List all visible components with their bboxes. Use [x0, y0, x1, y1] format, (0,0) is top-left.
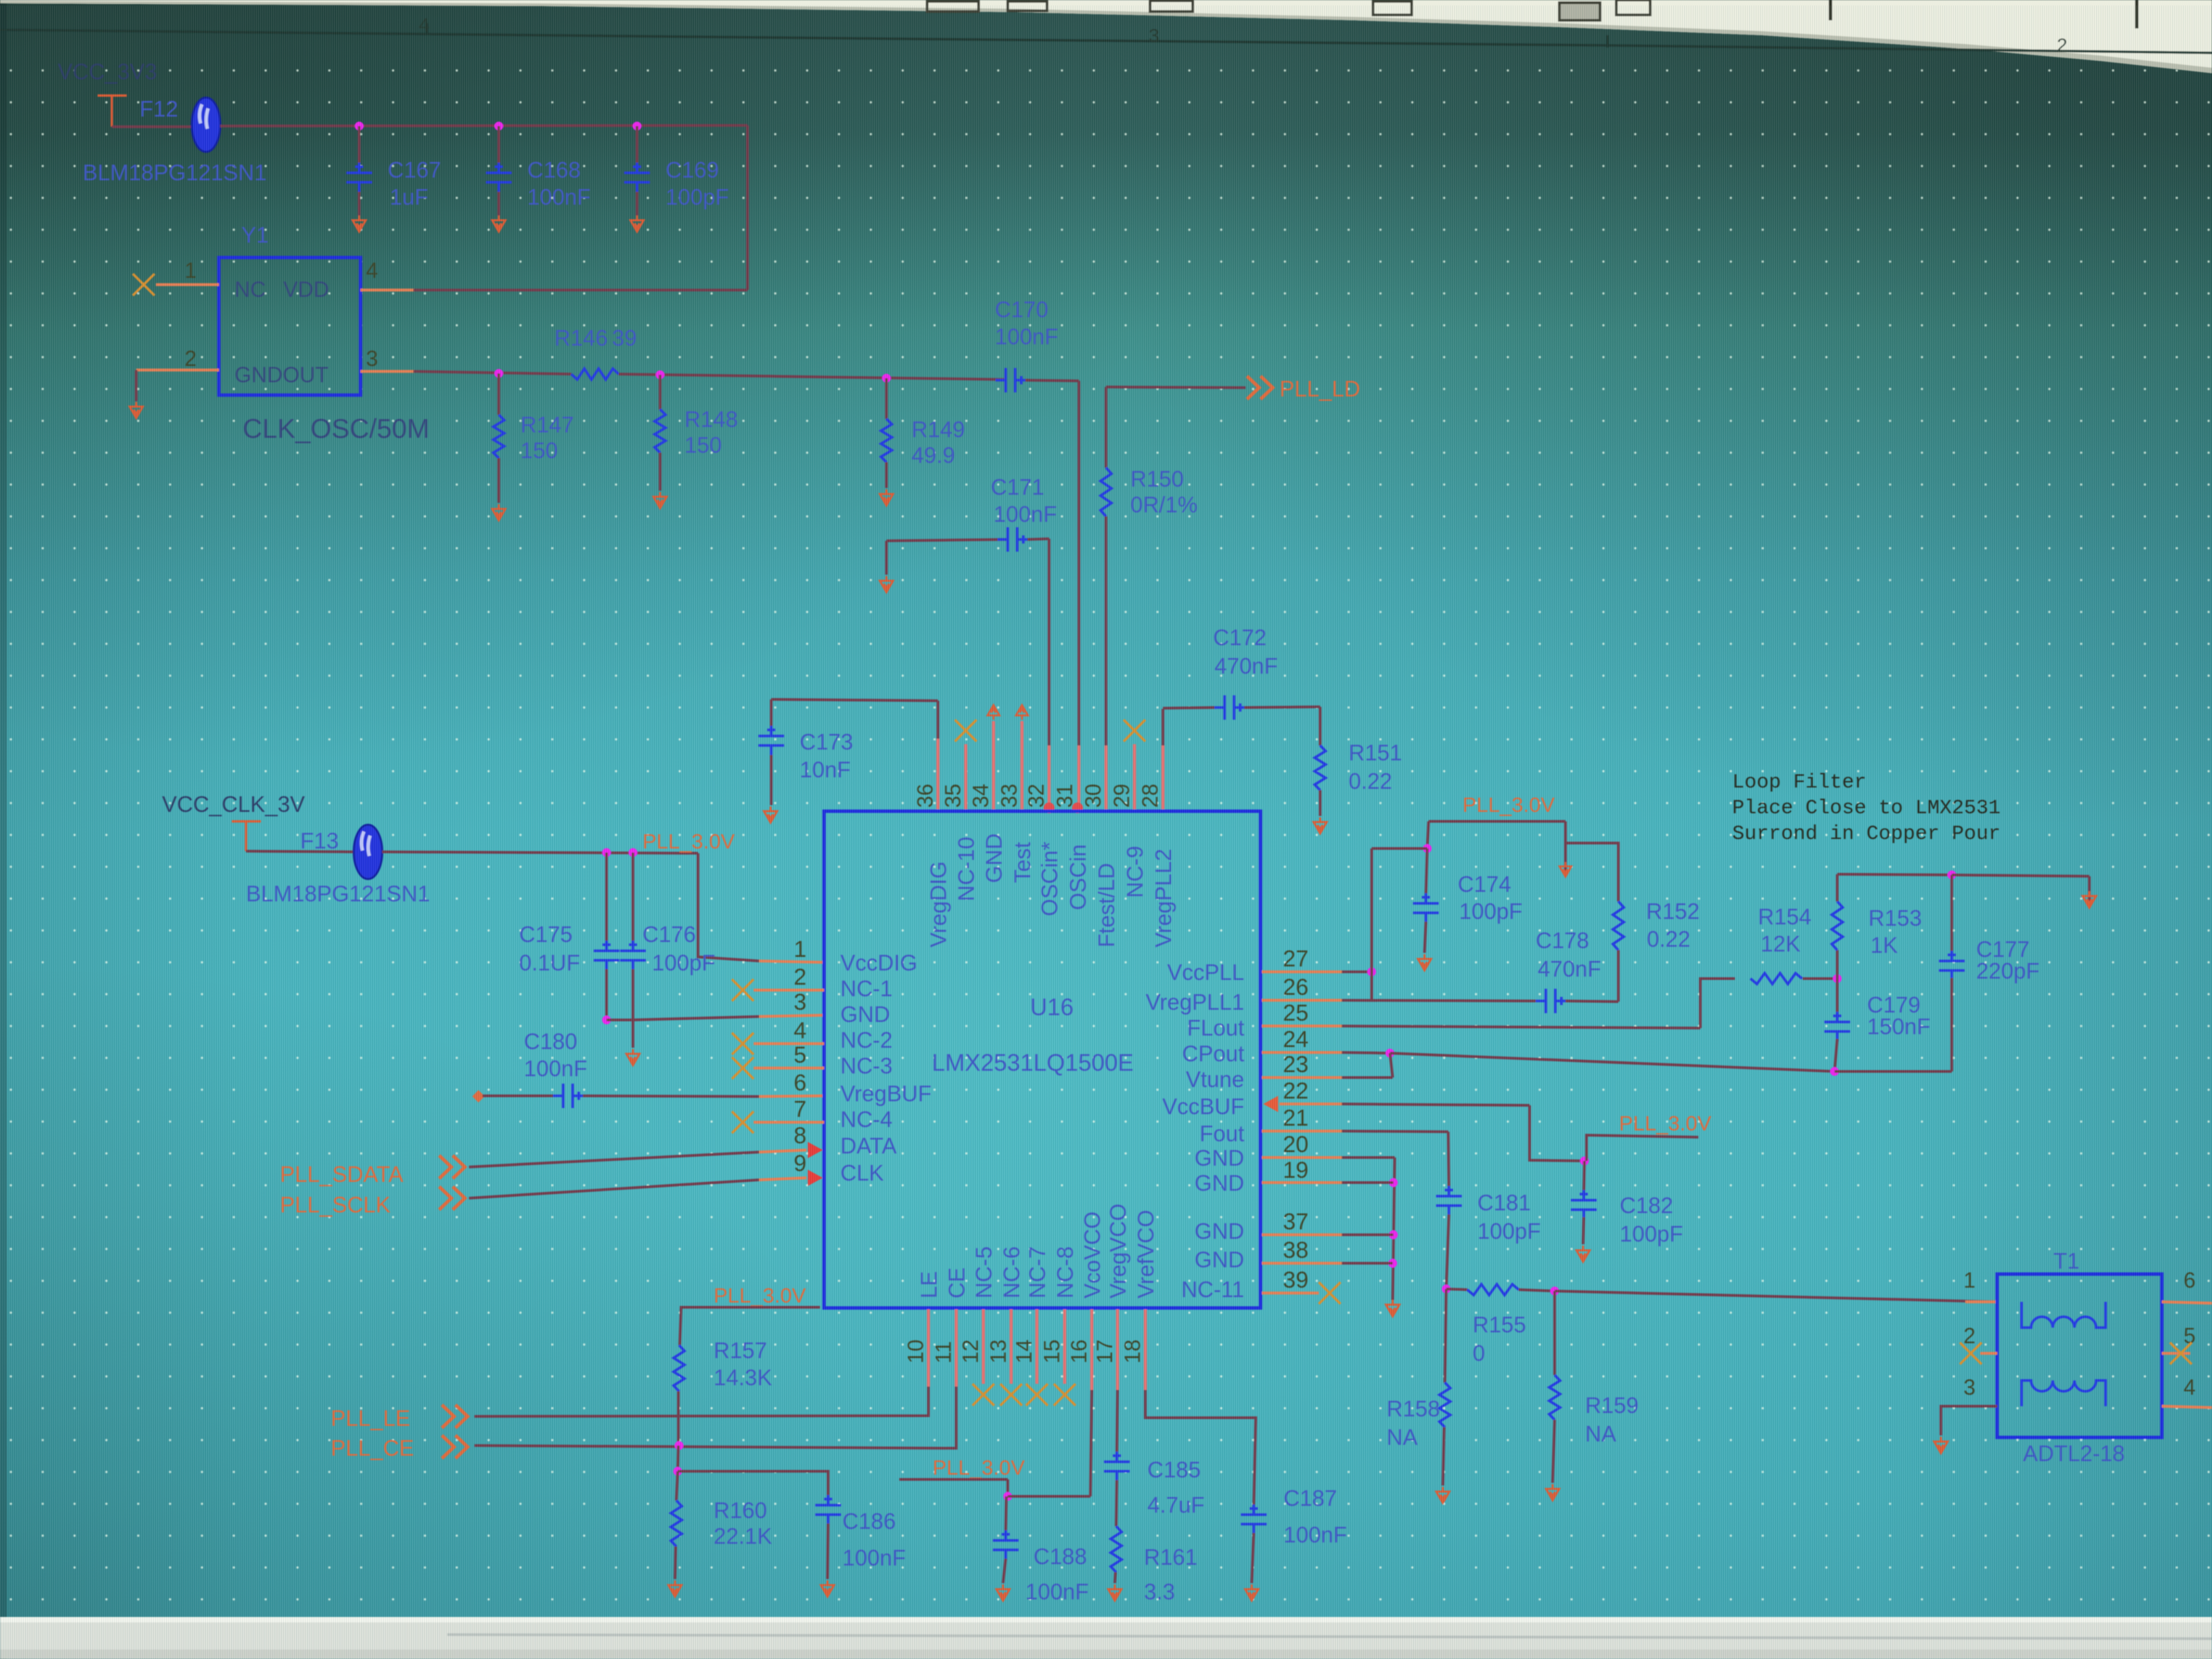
node gndout-R149	[882, 374, 891, 383]
wire R147 top lead	[497, 373, 500, 415]
resistor R150	[1101, 468, 1111, 516]
wire pin1451 nc stub	[982, 1309, 985, 1384]
ground C174 gnd	[1418, 954, 1431, 970]
wire pin18 wire	[1145, 1390, 1256, 1506]
wire R147 bottom lead	[497, 458, 500, 503]
wire R149 top lead	[885, 378, 888, 419]
capacitor C187	[1241, 1504, 1267, 1534]
wire pin26 wire	[1342, 1000, 1536, 1001]
wire VregPLL2 riser	[1162, 709, 1164, 745]
wire pin22 wire	[1342, 1104, 1530, 1105]
resistor R158	[1439, 1382, 1450, 1427]
wire R157 cont	[678, 1446, 678, 1471]
wire C168 bottom lead	[497, 192, 500, 216]
wire PLL3V drop to pins	[1427, 821, 1429, 848]
wire GNDOUT wire b	[619, 374, 1004, 380]
wire C186 branch	[678, 1471, 828, 1496]
wire pin23 riser	[1390, 1053, 1393, 1078]
wire pin1571 nc stub	[1063, 1309, 1067, 1384]
node rail-37	[1389, 1231, 1398, 1240]
wire Y1 pin4 wire VDD	[413, 289, 747, 291]
no-connect pin35 NC	[955, 720, 977, 741]
wire T1 pin6 wire	[2162, 1302, 2212, 1303]
wire loop bottom wire	[1390, 1053, 1835, 1071]
node gndout-R147	[495, 369, 504, 378]
wire R150 bottom lead	[1105, 516, 1107, 745]
wire R157 bottom lead	[677, 1391, 680, 1446]
capacitor C186	[815, 1495, 841, 1525]
ground C167 gnd	[352, 216, 365, 232]
wire DATA wire	[469, 1152, 759, 1167]
wire C188 bottom lead	[1003, 1559, 1006, 1583]
node pin24 node	[1386, 1049, 1395, 1058]
wire pin10 stub	[927, 1309, 930, 1387]
input port arrow PLL_LD	[1247, 376, 1273, 399]
no-connect T1 pin2 NC	[1960, 1343, 1982, 1364]
capacitor C179	[1824, 1012, 1850, 1042]
wire Y1 pin4 stub	[361, 289, 415, 291]
ground C171 gnd	[880, 576, 893, 592]
capacitor C173	[758, 726, 784, 756]
wire C169 top lead	[636, 126, 638, 163]
transformer T1 windings	[2022, 1302, 2106, 1328]
wire R148 bottom lead	[659, 453, 661, 491]
wire pin17 lead	[1117, 1390, 1118, 1453]
wire R150 top lead	[1105, 387, 1107, 468]
ferrite bead F12	[192, 98, 220, 152]
no-connect bottom NC x1571	[1054, 1384, 1076, 1406]
ground C187 gnd	[1245, 1584, 1258, 1601]
wire C167 top lead	[358, 126, 361, 163]
node PLL3V bc node	[1004, 1492, 1012, 1501]
wire loop arrow lead	[2088, 876, 2091, 905]
resistor R149	[881, 419, 892, 462]
wire Y1 pin3 stub	[361, 370, 415, 373]
no-connect pin39 NC-11	[1319, 1282, 1340, 1304]
wire CLK wire	[469, 1180, 759, 1198]
toolbar button 3	[1373, 1, 1412, 15]
wire left NC stub y1576	[754, 1067, 824, 1069]
wire Y1 pin2 drop	[135, 370, 138, 401]
ground C186 gnd	[821, 1580, 834, 1597]
wire pin1492 nc stub	[1010, 1309, 1013, 1384]
wire pin22 riser	[1530, 1105, 1584, 1161]
ground Y1 gnd	[129, 402, 142, 418]
wire R160 bottom lead	[675, 1547, 676, 1579]
wire pin24 wire	[1342, 1052, 1390, 1053]
wire Ftest stub	[1105, 745, 1108, 809]
toolbar button 6	[1008, 1, 1047, 11]
resistor R161	[1111, 1526, 1122, 1572]
node PLL3V-C174 node	[1423, 844, 1432, 853]
wire CLK stub	[759, 1178, 806, 1180]
wire C173 top wire	[771, 699, 938, 701]
wire VCC_CLK to bead	[246, 851, 354, 852]
no-connect bottom NC x1451	[972, 1384, 994, 1406]
wire loop top wire a	[1837, 874, 1952, 875]
wire left NC stub y1540	[754, 1042, 824, 1045]
wire R149 bottom lead	[885, 462, 888, 488]
wire pin24 stub	[1262, 1051, 1342, 1054]
resistor R147	[493, 415, 504, 458]
top toolbar band	[0, 0, 2212, 73]
capacitor C178	[1536, 989, 1565, 1013]
wire C177 top lead	[1950, 875, 1953, 954]
input port arrow PLL_SCLK	[439, 1187, 465, 1210]
wire VregDIG drop	[937, 701, 939, 739]
no-connect bottom NC x1492	[1000, 1384, 1022, 1406]
wire pin26 wire b	[1565, 1001, 1618, 1002]
node loop bottom node	[1830, 1067, 1839, 1076]
wire pin21 stub	[1262, 1130, 1342, 1132]
capacitor C168	[486, 163, 512, 192]
capacitor C181	[1436, 1186, 1462, 1216]
node R155 left node	[1442, 1285, 1451, 1294]
ground right rail gnd	[1386, 1300, 1399, 1316]
wire C169 bottom lead	[636, 192, 638, 216]
wire pin23 wire	[1342, 1076, 1393, 1079]
node gndout-R148	[656, 371, 665, 380]
ground pin34 gnd up	[987, 705, 1000, 720]
wire pin20 wire	[1342, 1156, 1395, 1159]
wire GND pin3 wire	[633, 1017, 759, 1020]
toolbar divider 2	[2135, 0, 2139, 28]
power symbol VCC_3V3	[98, 96, 127, 127]
wire PLL3V vert x2024	[1370, 848, 1373, 1002]
input port arrow PLL_CE	[442, 1435, 468, 1458]
wire pin16 riser	[1090, 1390, 1092, 1496]
capacitor C169	[624, 163, 650, 192]
toolbar divider	[1829, 0, 1832, 20]
node R157-CE node	[675, 1441, 684, 1450]
wire PLL3V to pin27	[1372, 847, 1427, 850]
wire pin35 stub	[964, 744, 968, 809]
wire pin38 stub	[1262, 1262, 1342, 1265]
no-connect left NC pin y1540	[732, 1033, 754, 1054]
wire Fout to T1	[1555, 1291, 1997, 1302]
capacitor C176	[620, 941, 646, 970]
wire R152 bottom lead	[1617, 950, 1620, 1002]
wire R151 bottom lead	[1319, 790, 1322, 816]
toolbar button 2	[1150, 1, 1193, 12]
wire pin11 stub	[955, 1309, 958, 1387]
wire C176 gnd lead	[632, 1020, 634, 1048]
IC U16 LMX2531LQ1500E body	[824, 811, 1261, 1308]
wire Y1 pin1 stub	[156, 283, 219, 286]
ground C168 gnd	[492, 216, 505, 232]
resistor R146	[571, 369, 619, 380]
ground R158 gnd	[1436, 1487, 1449, 1503]
wire VregDIG stub	[937, 739, 940, 809]
ground loop top arrow	[2083, 891, 2096, 907]
wire C175-C176 join	[607, 1019, 633, 1021]
left bezel shadow	[0, 0, 7, 1659]
wire C172 wire left	[1163, 708, 1214, 708]
ground C188 gnd	[996, 1584, 1009, 1601]
ground R151 gnd	[1313, 817, 1326, 834]
no-connect Y1 pin1	[133, 274, 155, 295]
wire PLL3V bc step	[1006, 1479, 1009, 1496]
pin marker C180 left end	[472, 1090, 485, 1103]
resistor R151	[1315, 745, 1326, 790]
wire VregBUF stub	[759, 1096, 824, 1097]
resistor R148	[655, 409, 665, 453]
capacitor C172	[1214, 695, 1244, 720]
wire PLL3V left rail	[680, 1307, 820, 1345]
toolbar button 5	[1616, 0, 1650, 15]
wire OSCin drop	[1078, 381, 1080, 745]
wire T1 pin3 wire	[1941, 1406, 1997, 1435]
wire pin38 wire	[1342, 1262, 1393, 1265]
resistor R152	[1613, 901, 1624, 950]
capacitor C182	[1571, 1190, 1597, 1220]
wire pin39 stub	[1262, 1292, 1319, 1294]
wire pin16 stub	[1090, 1309, 1094, 1390]
sheet border tick 1	[426, 23, 428, 35]
node R160 node	[674, 1467, 682, 1476]
wire Y1 pin2 stub	[136, 369, 219, 371]
wire OSCin* drop	[1048, 539, 1050, 745]
wire R161 bottom lead	[1115, 1572, 1115, 1583]
bottom strip highlight	[0, 1617, 2212, 1622]
wire T1 pin4 wire	[2162, 1406, 2212, 1408]
toolbar button 1	[927, 1, 979, 12]
wire R152 branch	[1565, 821, 1618, 901]
wire pin25 stub	[1262, 1025, 1342, 1027]
wire pin26 stub	[1262, 999, 1342, 1002]
ground R147 gnd	[492, 504, 505, 520]
wire R160 top lead	[676, 1471, 678, 1500]
ground R148 gnd	[653, 492, 666, 508]
wire C179 bottom lead	[1835, 1039, 1837, 1071]
wire pin37 stub	[1262, 1233, 1342, 1236]
resistor R154	[1750, 973, 1802, 984]
capacitor C167	[346, 163, 372, 192]
wire R154 riser	[1700, 979, 1735, 1028]
capacitor C175	[594, 941, 619, 970]
power symbol VCC_CLK_3V	[232, 821, 261, 851]
wire GND pin3 stub	[759, 1015, 824, 1017]
wire C188 top lead	[1006, 1496, 1006, 1532]
wire pin19 stub	[1262, 1181, 1342, 1184]
no-connect bottom NC x1530	[1026, 1384, 1048, 1406]
wire R152 arrow lead	[1564, 843, 1567, 873]
no-connect left NC pin y1656	[732, 1111, 754, 1133]
capacitor C188	[993, 1530, 1019, 1560]
wire C173 left drop	[770, 699, 773, 726]
input arrow CLK pin	[808, 1170, 823, 1186]
wire PLL3V rail left	[382, 852, 698, 853]
wire PLL3V rail b	[1429, 820, 1565, 823]
wire C171 gnd lead	[885, 541, 888, 575]
node rail-38	[1389, 1259, 1397, 1268]
wire pin18 stub	[1144, 1309, 1147, 1390]
wire C180 wire a	[483, 1094, 553, 1097]
ferrite bead F13	[354, 825, 382, 879]
toolbar button 4	[1559, 3, 1600, 20]
ground R149 gnd	[880, 489, 893, 506]
wire R148 top lead	[659, 375, 661, 409]
wire pin25 wire	[1342, 1026, 1700, 1028]
node rail-19	[1389, 1179, 1398, 1187]
wire C185-R161	[1116, 1480, 1117, 1526]
ground C176 gnd	[626, 1049, 639, 1065]
ground pin33 gnd up	[1016, 705, 1028, 720]
resistor R153	[1832, 901, 1843, 950]
capacitor C177	[1939, 951, 1965, 981]
wire OSCin* stub	[1048, 745, 1051, 809]
sheet border top line	[0, 30, 2212, 53]
node rail-C176	[629, 848, 638, 857]
wire C186 bottom lead	[827, 1523, 828, 1579]
wire C182 top lead	[1584, 1161, 1584, 1193]
wire pin27 stub	[1262, 970, 1342, 973]
wire C180 wire b	[583, 1096, 759, 1097]
wire C181 bottom lead	[1446, 1214, 1449, 1289]
wire pin17 stub	[1116, 1309, 1120, 1390]
wire gnd rail drop	[1393, 1158, 1395, 1300]
oscillator Y1 body	[219, 258, 361, 395]
wire pin23 stub	[1262, 1076, 1342, 1079]
wire pin1530 nc stub	[1036, 1309, 1039, 1384]
ground C169 gnd	[630, 216, 643, 232]
wire PLL_LD wire	[1106, 387, 1246, 388]
wire pin27 wire	[1342, 970, 1372, 973]
ground R159 gnd	[1546, 1484, 1559, 1500]
wire C174 top lead	[1426, 848, 1427, 895]
wire OSCin wire	[1025, 380, 1079, 381]
wire pin33 stub	[1021, 721, 1024, 809]
wire CE wire	[474, 1387, 956, 1448]
wire C171 wire left	[886, 539, 1007, 541]
wire C179 top lead	[1836, 979, 1839, 1015]
resistor R157	[674, 1345, 684, 1391]
capacitor C180	[553, 1084, 583, 1108]
wire R155 lead b	[1519, 1290, 1555, 1291]
wire OSCin stub	[1078, 745, 1081, 809]
wire C175 top lead	[605, 853, 608, 943]
node OSCin pin	[1072, 802, 1083, 813]
node rail-C167	[355, 122, 364, 131]
ground T1 pin3 gnd	[1934, 1437, 1948, 1453]
bottom strip lower shade	[0, 1650, 2212, 1659]
wire C176 top lead	[632, 853, 634, 943]
no-connect left NC pin y1461	[732, 979, 754, 1001]
wire C176 bottom lead	[632, 969, 634, 1020]
wire R151 top lead	[1319, 707, 1322, 745]
capacitor C170	[996, 368, 1025, 392]
wire VCC rail	[220, 125, 747, 126]
wire T1 pin5 stub	[2162, 1352, 2190, 1355]
wire R153 top	[1836, 950, 1839, 979]
wire PLL3V mid rail	[1586, 1135, 1698, 1161]
wire LE wire	[474, 1387, 928, 1416]
wire C167 bottom lead	[358, 192, 361, 216]
toolbar shading	[0, 1, 2212, 73]
wire pin34 stub	[992, 721, 996, 809]
ground R161 gnd	[1108, 1584, 1121, 1601]
input port arrow PLL_LE	[442, 1405, 468, 1428]
wire C173 bottom lead	[770, 755, 773, 805]
sheet border tick 2	[1606, 35, 1609, 47]
bottom scrollbar strip	[0, 1617, 2212, 1659]
input arrow DATA pin	[808, 1142, 823, 1158]
node PLL3V mid node	[1580, 1157, 1589, 1166]
wire pin29 stub	[1133, 744, 1136, 809]
wire pin19 wire	[1342, 1181, 1393, 1184]
wire loop bottom wire b	[1835, 1070, 1952, 1073]
wire VCC_3V3 to bead	[112, 125, 192, 128]
wire pin21 drop	[1448, 1132, 1449, 1187]
wire loop top wire b	[1952, 875, 2089, 876]
wire VCC rail drop	[746, 125, 749, 290]
node rail-C168	[495, 122, 504, 131]
capacitor C185	[1104, 1452, 1130, 1481]
wire R158 top lead	[1445, 1289, 1446, 1382]
capacitor C171	[998, 527, 1027, 552]
node OSCin* pin	[1044, 802, 1054, 813]
wire PLL3V bc to pin16	[1008, 1495, 1090, 1498]
wire pin22 stub	[1279, 1103, 1342, 1105]
ground C182 gnd	[1576, 1246, 1589, 1262]
wire C187 bottom lead	[1252, 1533, 1254, 1583]
wire C168 top lead	[497, 126, 500, 163]
node pin27 node	[1368, 968, 1376, 977]
ground R152 top gnd	[1559, 862, 1572, 877]
wire VregPLL2 stub	[1162, 745, 1165, 809]
wire T1 pin2 stub	[1980, 1352, 1997, 1355]
wire C174 bottom lead	[1425, 922, 1426, 953]
resistor R160	[671, 1500, 682, 1547]
wire VccDIG stub	[759, 961, 824, 962]
wire DATA stub	[759, 1150, 806, 1152]
input port arrow PLL_SDATA	[439, 1155, 465, 1179]
bottom strip groove	[447, 1635, 2212, 1639]
wire pin37 wire	[1342, 1233, 1393, 1236]
wire GNDOUT wire a	[413, 371, 571, 374]
node rail-C169	[633, 122, 642, 131]
node rail-C175	[602, 848, 611, 857]
wire R154 to R153	[1803, 977, 1837, 980]
wire R159 bottom lead	[1553, 1420, 1555, 1483]
wire left NC stub y1656	[754, 1121, 824, 1124]
wire R155 lead a	[1446, 1289, 1467, 1290]
wire pin20 stub	[1262, 1156, 1342, 1159]
resistor R159	[1549, 1375, 1560, 1420]
wire T1 pin1 stub	[1965, 1300, 1997, 1303]
no-connect pin29 NC	[1124, 720, 1145, 741]
wire C172 wire right	[1244, 707, 1320, 708]
wire R159 top lead	[1553, 1291, 1556, 1375]
input arrow Vtune pin	[1263, 1096, 1278, 1112]
wire R153 top lead	[1836, 874, 1839, 901]
ground C173 gnd	[764, 806, 777, 823]
wire C182 bottom lead	[1583, 1217, 1584, 1244]
wire R158 bottom lead	[1443, 1427, 1444, 1486]
node R154-R153 node	[1833, 975, 1842, 983]
wire C171 wire right	[1027, 539, 1049, 539]
no-connect left NC pin y1576	[732, 1057, 754, 1079]
wire pin21 wire	[1342, 1131, 1448, 1132]
wire C175 bottom lead	[605, 969, 608, 1020]
node R155 right node	[1551, 1287, 1559, 1296]
ground R160 gnd	[668, 1580, 681, 1597]
capacitor C174	[1413, 893, 1439, 923]
no-connect T1 pin5 NC	[2170, 1343, 2192, 1364]
transformer T1 body	[1997, 1274, 2162, 1437]
resistor R155	[1467, 1284, 1519, 1295]
wire PLL3V bc rail	[899, 1478, 1008, 1481]
